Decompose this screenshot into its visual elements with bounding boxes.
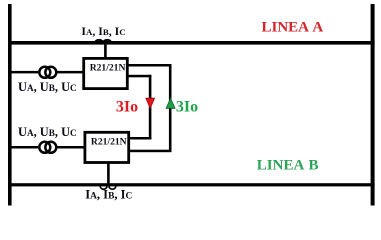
right bus rail	[371, 4, 375, 206]
wire relay1 tap1 to green riser	[129, 64, 172, 67]
bus LINEA A	[8, 41, 375, 45]
wire feeder 1 (rail to relay 1)	[10, 71, 83, 74]
svg-text:R21/21N: R21/21N	[91, 137, 127, 148]
VT circles on feeder 1	[38, 66, 51, 79]
bus LINEA B	[8, 183, 375, 186]
svg-text:LINEA B: LINEA B	[257, 157, 319, 173]
arrow 3Io down (red)	[146, 98, 155, 108]
wire bus A to relay 1	[104, 45, 107, 58]
wire red riser (3Io down)	[149, 75, 152, 140]
wire relay1 tap2 to red riser	[129, 75, 152, 78]
CT arcs on bus LINEA A	[95, 40, 111, 43]
wire relay2 tap2 to green riser	[130, 150, 172, 153]
svg-text:IA, IB, IC: IA, IB, IC	[81, 24, 125, 38]
wire relay2 to bus LINEA B	[107, 163, 110, 184]
wire feeder 2 (rail to relay 2)	[10, 146, 84, 149]
svg-text:UA, UB, UC: UA, UB, UC	[18, 125, 77, 139]
svg-text:UA, UB, UC: UA, UB, UC	[18, 80, 77, 94]
left bus rail	[8, 4, 12, 206]
svg-text:3Io: 3Io	[176, 99, 198, 116]
wire green riser (3Io up)	[169, 64, 172, 152]
wire relay2 tap1 to red riser	[130, 137, 152, 140]
svg-text:R21/21N: R21/21N	[90, 63, 126, 74]
CT arcs on bus LINEA B	[100, 186, 116, 190]
relay U1 box R21/21N	[84, 58, 128, 88]
svg-text:3Io: 3Io	[116, 99, 138, 116]
svg-text:LINEA A: LINEA A	[262, 20, 324, 36]
svg-text:IA, IB, IC: IA, IB, IC	[85, 188, 132, 202]
arrow 3Io up (green)	[166, 98, 175, 108]
relay U2 box R21/21N	[85, 132, 129, 162]
VT circles on feeder 2	[38, 141, 51, 154]
